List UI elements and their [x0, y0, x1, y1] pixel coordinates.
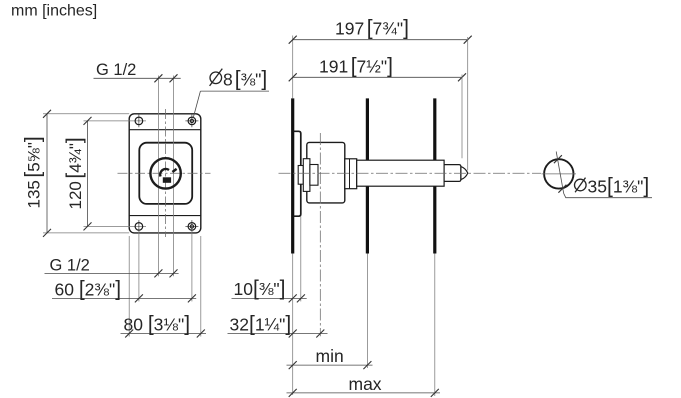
extension line G1/2 right (x=173.5)	[173, 76, 175, 277]
dim G1/2 top	[94, 61, 181, 83]
screw bottom-right	[185, 220, 198, 233]
extension lines plate edges down	[128, 236, 130, 337]
dim 60	[52, 277, 196, 302]
screw bottom-left	[135, 220, 143, 233]
svg-text:120[4¾"]: 120[4¾"]	[63, 137, 86, 209]
screw top-right	[185, 115, 198, 128]
wall line min (thick)	[366, 98, 369, 253]
plate front ext down	[300, 216, 302, 301]
svg-text:G 1/2: G 1/2	[96, 61, 136, 79]
svg-text:80 [3⅛"]: 80 [3⅛"]	[124, 312, 191, 335]
dim 191	[289, 54, 466, 158]
plate flange line top	[129, 129, 201, 131]
centerline vertical front view	[165, 109, 167, 237]
dim 135	[22, 110, 130, 237]
svg-text:35[1⅜"]: 35[1⅜"]	[588, 175, 650, 198]
valve body	[307, 142, 345, 203]
svg-text:135[5⅝"]: 135[5⅝"]	[22, 136, 45, 208]
dim 120	[63, 117, 92, 230]
cone tip	[461, 167, 468, 180]
wall plate front view	[129, 114, 201, 233]
end cap	[444, 165, 461, 182]
dim 32	[228, 312, 328, 337]
svg-text:8[⅜"]: 8[⅜"]	[223, 68, 267, 91]
dim 10	[232, 277, 307, 302]
dim max	[287, 374, 441, 397]
nut stack collar	[310, 165, 318, 186]
handle icon square	[163, 177, 171, 183]
svg-text:min: min	[316, 346, 344, 366]
plate flange line bottom	[129, 215, 201, 217]
stem	[357, 160, 444, 186]
svg-text:10[⅜"]: 10[⅜"]	[234, 277, 286, 300]
dim G1/2 bottom	[45, 257, 179, 278]
step piece divider	[349, 159, 351, 189]
wall line back (thick)	[291, 98, 294, 253]
handle icon dash	[172, 169, 176, 172]
svg-text:max: max	[349, 374, 382, 394]
screw top-left	[135, 115, 143, 128]
step piece	[345, 159, 357, 189]
svg-text:mm [inches]: mm [inches]	[11, 3, 97, 20]
dim 197	[289, 16, 472, 170]
svg-text:191[7½"]: 191[7½"]	[319, 54, 393, 77]
extension lines screws down	[138, 231, 140, 301]
nut stack washer	[298, 166, 303, 185]
handle circle	[150, 158, 180, 188]
centerline horizontal front view	[118, 172, 211, 174]
inlet centerline vertical	[319, 133, 321, 336]
svg-text:G 1/2: G 1/2	[50, 257, 90, 275]
svg-text:197[7¾"]: 197[7¾"]	[335, 16, 409, 39]
dia 35 dim line	[554, 152, 652, 198]
plate profile side view	[294, 131, 301, 216]
handle icon arc	[160, 169, 169, 177]
handle circle centerline	[542, 173, 577, 175]
nut stack nut	[303, 159, 310, 192]
svg-text:32[1¼"]: 32[1¼"]	[230, 312, 292, 335]
dim 120 extension top through screw	[84, 120, 147, 122]
axis centerline	[279, 172, 542, 174]
dim min	[287, 346, 373, 369]
extension line G1/2 left (x=158.4)	[157, 76, 159, 277]
svg-text:60 [2⅜"]: 60 [2⅜"]	[55, 277, 122, 300]
dim 80	[121, 312, 207, 337]
handle side circle	[544, 159, 573, 188]
wall line max (thick)	[433, 98, 436, 253]
wall line back thin extensions	[292, 36, 294, 99]
escutcheon inner square	[139, 143, 192, 204]
dim 120 extension bottom through screw	[84, 225, 147, 227]
leader dia 8	[193, 68, 269, 118]
